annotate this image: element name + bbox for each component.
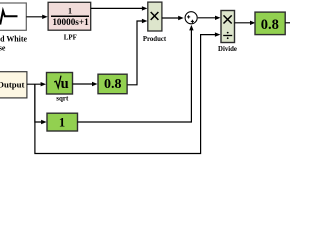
- svg-text:Band-Limited White: Band-Limited White: [0, 35, 27, 44]
- svg-text:LPF: LPF: [64, 35, 77, 42]
- svg-text:sqrt: sqrt: [56, 94, 69, 102]
- svg-text:10000s+1: 10000s+1: [52, 17, 89, 27]
- svg-text:1: 1: [68, 7, 72, 16]
- svg-text:0.8: 0.8: [104, 77, 122, 92]
- svg-text:u: u: [61, 76, 69, 92]
- svg-text:0.8: 0.8: [261, 17, 279, 33]
- svg-text:Noise: Noise: [0, 43, 6, 52]
- svg-text:Divide: Divide: [218, 46, 237, 53]
- svg-text:1: 1: [59, 115, 65, 129]
- svg-text:Product: Product: [143, 36, 167, 43]
- svg-text:Output: Output: [0, 80, 25, 90]
